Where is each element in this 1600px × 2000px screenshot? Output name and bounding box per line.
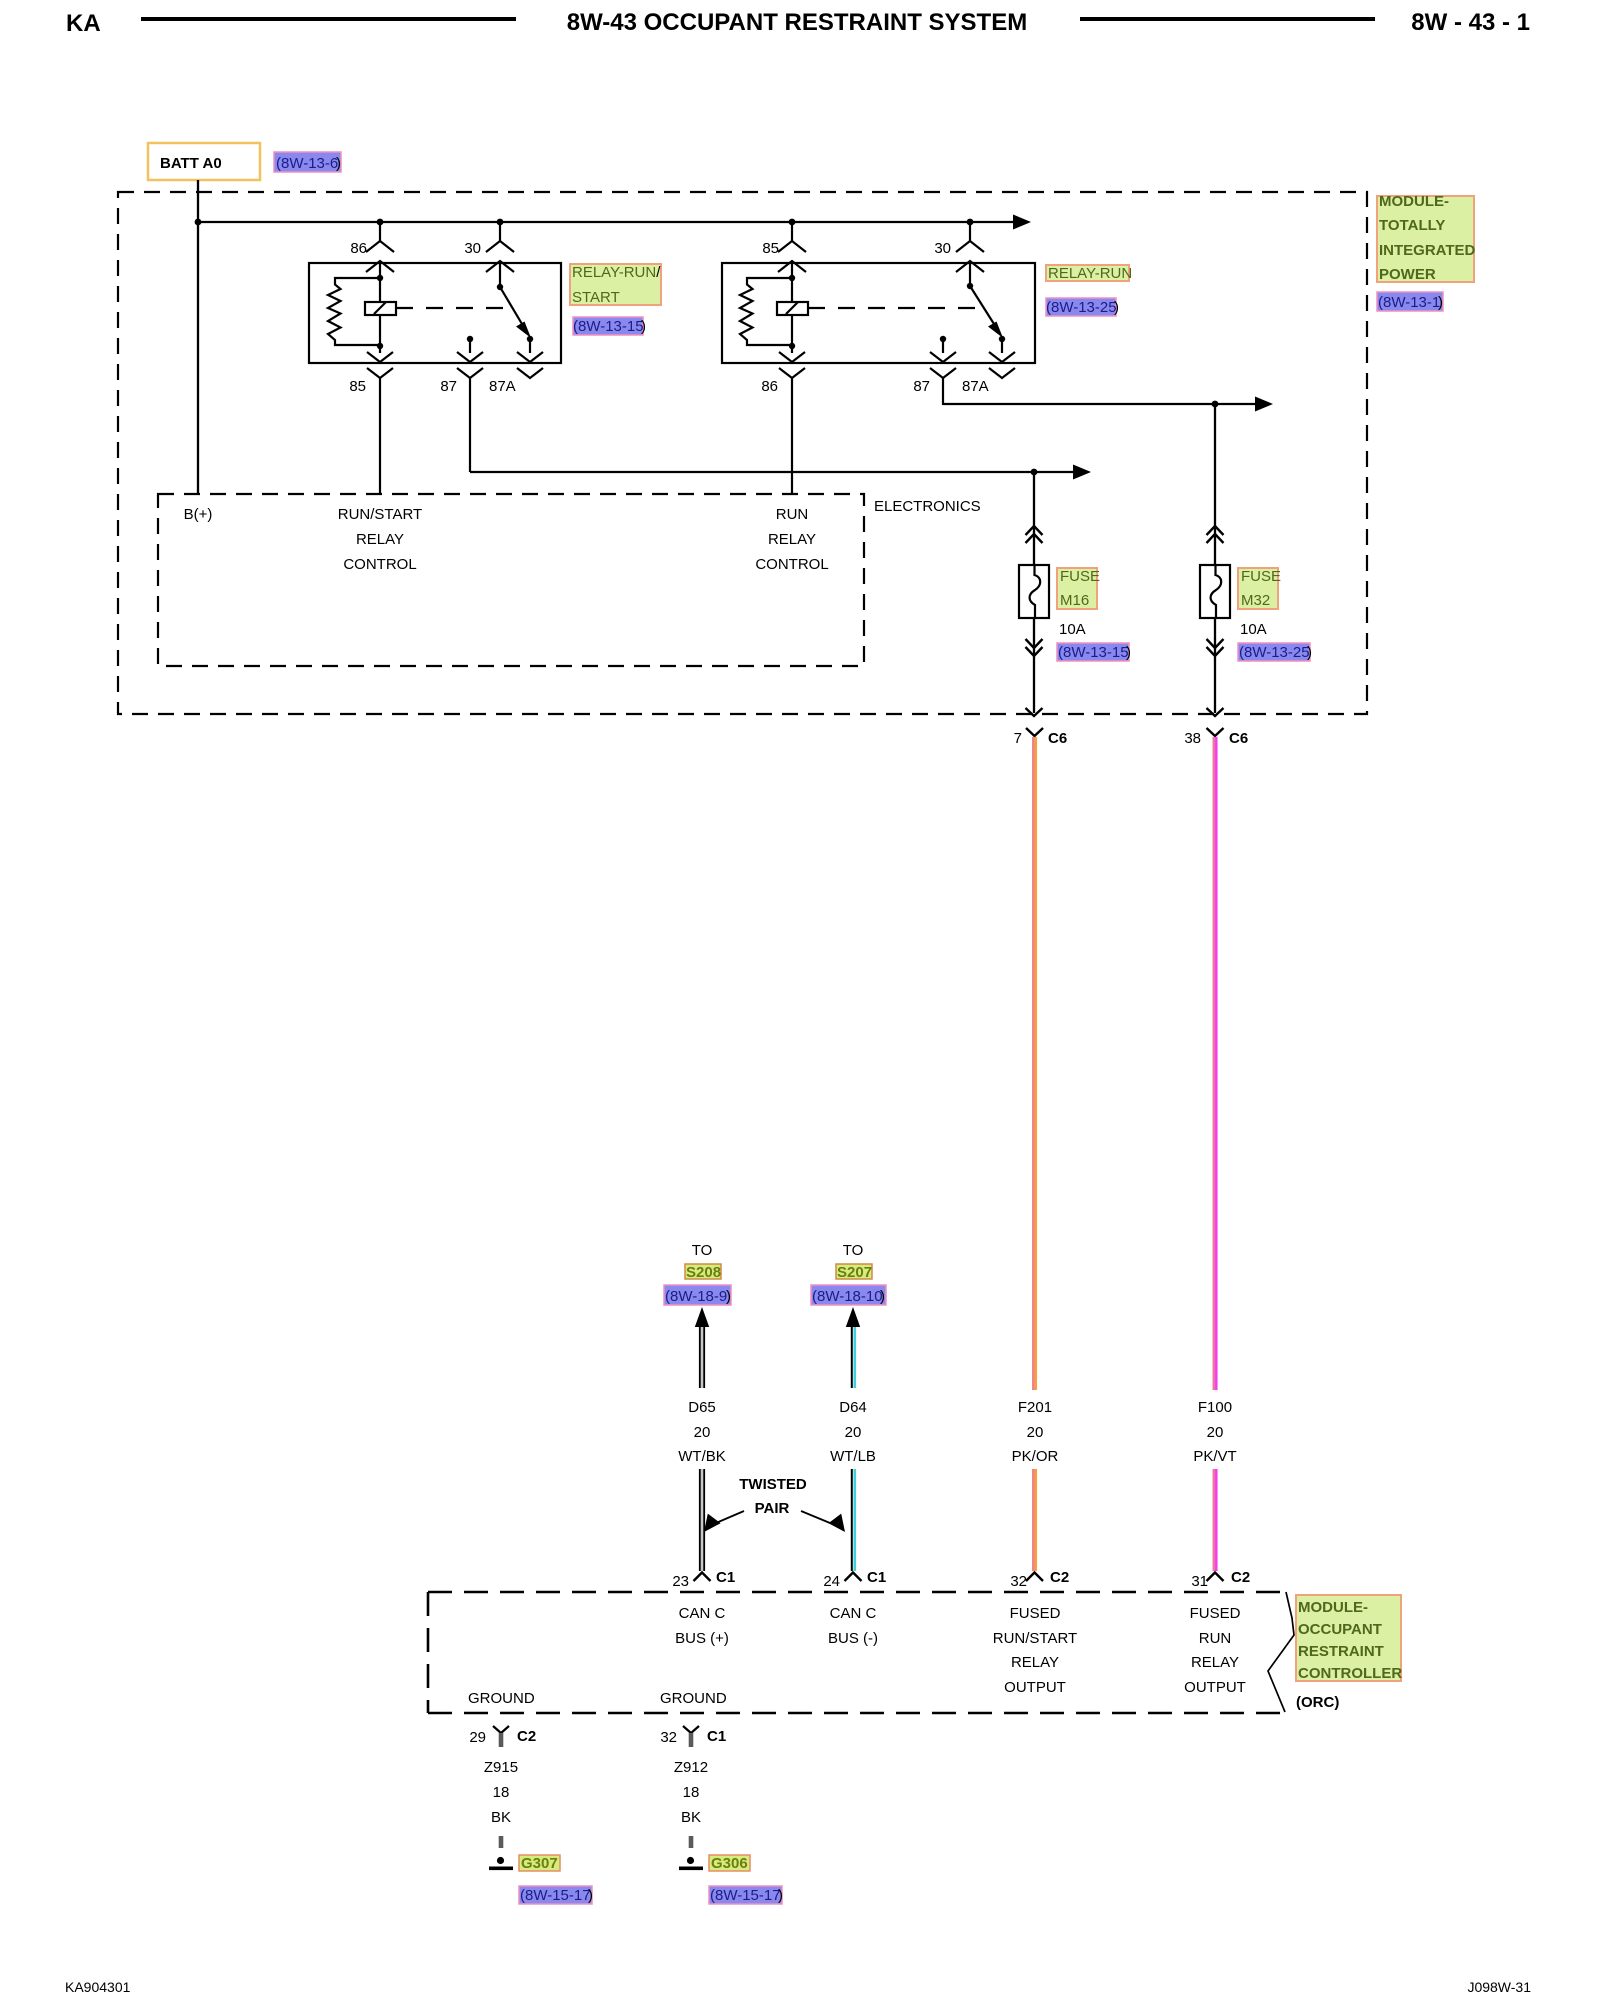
- svg-text:(8W-13-6: (8W-13-6: [276, 155, 338, 172]
- pin 30 terminal relay1: [486, 222, 514, 287]
- relay1 pin87 Y connector: [457, 368, 483, 472]
- pin 87 terminal relay2 bottom: [930, 339, 956, 362]
- node relay1 coil top: [377, 275, 383, 281]
- svg-text:(8W-13-25: (8W-13-25: [1239, 644, 1310, 661]
- module label MODULE-TOTALLY INTEGRATED POWER: [1377, 193, 1476, 283]
- svg-text:GROUND: GROUND: [468, 1690, 535, 1707]
- reference label (8W-13-25) relay2: [1046, 298, 1119, 316]
- arrowhead relay1 switch: [516, 322, 531, 339]
- arrow bus continuation: [1013, 215, 1031, 230]
- svg-text:31: 31: [1191, 1573, 1208, 1590]
- svg-text:TWISTED: TWISTED: [739, 1476, 807, 1493]
- label F100 20 PK/VT: [1193, 1399, 1236, 1465]
- relay1 coil symbol: [365, 302, 396, 315]
- svg-text:C1: C1: [716, 1569, 735, 1586]
- svg-text:(ORC): (ORC): [1296, 1694, 1339, 1711]
- svg-text:24: 24: [823, 1573, 840, 1590]
- relay1 coil wire vertical: [379, 279, 381, 353]
- svg-text:18: 18: [683, 1784, 700, 1801]
- wire BK stub left: [499, 1836, 504, 1848]
- svg-text:87A: 87A: [489, 378, 516, 395]
- svg-text:8W - 43 - 1: 8W - 43 - 1: [1411, 9, 1530, 36]
- fuse M16: [1019, 565, 1049, 619]
- connector C6 pin 38: [1184, 728, 1248, 747]
- svg-text:10A: 10A: [1059, 621, 1086, 638]
- svg-text:): ): [588, 1887, 593, 1904]
- wire F201 PK/OR upper: [1033, 737, 1036, 1390]
- svg-text:F201: F201: [1018, 1399, 1052, 1416]
- node relay1 switch pivot: [497, 284, 503, 290]
- node relay1 pin87 stub: [467, 336, 473, 342]
- svg-text:START: START: [572, 289, 620, 306]
- label FUSE M32: [1238, 568, 1281, 609]
- svg-text:10A: 10A: [1240, 621, 1267, 638]
- svg-text:): ): [1114, 299, 1119, 316]
- label RELAY-RUN/START: [570, 264, 661, 306]
- connector C1 pin 23: [672, 1569, 735, 1590]
- svg-text:87: 87: [913, 378, 930, 395]
- header rule right: [1080, 17, 1375, 21]
- reference label (8W-13-15) relay1: [573, 317, 646, 335]
- wire D64 WT/LB upper: [852, 1327, 855, 1388]
- svg-text:(8W-13-15: (8W-13-15: [573, 318, 644, 335]
- electronics sub-module dashed box: [158, 494, 864, 666]
- connector C2 pin 29: [469, 1726, 536, 1747]
- svg-text:): ): [1126, 644, 1131, 661]
- module box TIPM dashed outline: [118, 192, 1367, 714]
- svg-text:RUN: RUN: [776, 506, 809, 523]
- svg-text:(8W-13-25: (8W-13-25: [1046, 299, 1117, 316]
- pin 87 terminal relay1 bottom: [457, 339, 483, 362]
- node relay2 coil bottom: [789, 343, 795, 349]
- svg-text:20: 20: [845, 1424, 862, 1441]
- node relay2 switch pivot: [967, 283, 973, 289]
- arrow TIPM exit right: [1207, 708, 1224, 716]
- wire fuse M16 vertical: [1033, 472, 1035, 565]
- svg-text:30: 30: [464, 240, 481, 257]
- svg-text:32: 32: [1010, 1573, 1027, 1590]
- svg-text:C2: C2: [1231, 1569, 1250, 1586]
- svg-text:RUN/START: RUN/START: [993, 1630, 1077, 1647]
- svg-text:): ): [641, 318, 646, 335]
- relay2 switch common from pin30: [970, 286, 994, 324]
- svg-text:GROUND: GROUND: [660, 1690, 727, 1707]
- svg-text:FUSED: FUSED: [1010, 1605, 1061, 1622]
- arrowhead relay2 switch: [988, 322, 1003, 339]
- wire BK stub right: [689, 1836, 694, 1848]
- svg-text:BK: BK: [681, 1809, 701, 1826]
- arrow TIPM exit left: [1026, 708, 1043, 716]
- svg-text:): ): [726, 1288, 731, 1305]
- svg-text:M16: M16: [1060, 592, 1089, 609]
- wire F100 PK/VT upper: [1214, 737, 1217, 1390]
- label D65 20 WT/BK: [678, 1399, 726, 1465]
- svg-text:MODULE-: MODULE-: [1379, 193, 1449, 210]
- connector C2 pin 32: [1010, 1569, 1069, 1590]
- svg-text:G307: G307: [521, 1855, 558, 1872]
- wire battery feed vertical: [197, 180, 199, 494]
- node fuse M32 tap: [1212, 401, 1219, 408]
- svg-text:(8W-13-1: (8W-13-1: [1378, 294, 1440, 311]
- svg-text:(8W-13-15: (8W-13-15: [1058, 644, 1129, 661]
- svg-text:CONTROLLER: CONTROLLER: [1298, 1665, 1402, 1682]
- node label RUN RELAY CONTROL: [755, 506, 828, 573]
- relay2 pin87A unused terminal: [989, 368, 1015, 378]
- svg-text:RELAY: RELAY: [1011, 1654, 1059, 1671]
- svg-text:(8W-15-17: (8W-15-17: [520, 1887, 591, 1904]
- pin 85 terminal relay1 bottom: [367, 352, 393, 362]
- svg-text:20: 20: [694, 1424, 711, 1441]
- svg-text:FUSE: FUSE: [1241, 568, 1281, 585]
- pin 86 terminal relay2 bottom: [779, 352, 805, 362]
- svg-text:M32: M32: [1241, 592, 1270, 609]
- svg-text:C2: C2: [517, 1728, 536, 1745]
- node bus junction relay2 pin85: [789, 219, 796, 226]
- wire fuse M32 vertical: [1214, 404, 1216, 565]
- wire top bus horizontal: [198, 221, 1014, 223]
- pin 30 terminal relay2: [956, 222, 984, 286]
- svg-text:OCCUPANT: OCCUPANT: [1298, 1621, 1382, 1638]
- svg-text:CONTROL: CONTROL: [755, 556, 828, 573]
- svg-text:CAN C: CAN C: [830, 1605, 877, 1622]
- svg-text:RELAY: RELAY: [356, 531, 404, 548]
- svg-text:KA904301: KA904301: [65, 1979, 131, 1995]
- svg-text:TOTALLY: TOTALLY: [1379, 217, 1445, 234]
- node bus junction relay1 pin30: [497, 219, 504, 226]
- label Z915 18 BK: [484, 1759, 518, 1826]
- connector chevrons below fuse M16: [1026, 639, 1043, 656]
- relay1 pin87A unused terminal: [517, 368, 543, 378]
- svg-text:RELAY: RELAY: [768, 531, 816, 548]
- node relay1 coil bottom: [377, 343, 383, 349]
- arrow to S208: [695, 1307, 709, 1327]
- connector C1 pin 24: [823, 1569, 886, 1590]
- pin 87A terminal relay2 bottom: [989, 352, 1015, 362]
- label G307: [519, 1855, 560, 1872]
- pin 86 terminal relay1: [366, 222, 394, 279]
- svg-text:FUSED: FUSED: [1190, 1605, 1241, 1622]
- svg-text:POWER: POWER: [1379, 266, 1436, 283]
- svg-text:30: 30: [934, 240, 951, 257]
- svg-text:7: 7: [1014, 730, 1022, 747]
- svg-text:85: 85: [762, 240, 779, 257]
- svg-text:G306: G306: [711, 1855, 748, 1872]
- relay2 switch contact to 87A: [1001, 339, 1003, 353]
- node fuse M16 tap: [1031, 469, 1038, 476]
- connector chevrons above fuse M16: [1026, 526, 1043, 543]
- wire D65 WT/BK lower: [700, 1469, 704, 1571]
- module box ORC jagged break edge: [1268, 1592, 1294, 1712]
- wire relay2 87 to fuse M32: [943, 403, 1256, 405]
- twisted pair callout left: [704, 1511, 744, 1532]
- svg-text:RELAY: RELAY: [1191, 1654, 1239, 1671]
- node relay1 pin87A contact: [527, 336, 533, 342]
- svg-text:WT/LB: WT/LB: [830, 1448, 876, 1465]
- svg-text:PK/VT: PK/VT: [1193, 1448, 1236, 1465]
- label TWISTED PAIR: [739, 1476, 807, 1517]
- svg-text:C6: C6: [1048, 730, 1067, 747]
- svg-text:BK: BK: [491, 1809, 511, 1826]
- connector C1 pin 32: [660, 1726, 726, 1747]
- node bus junction at battery: [195, 219, 202, 226]
- label TO S207 (8W-18-10): [811, 1242, 886, 1305]
- reference label (8W-13-25) fuse M32: [1238, 643, 1312, 661]
- reference label (8W-13-15) fuse M16: [1057, 643, 1131, 661]
- arrow run feed continuation: [1255, 397, 1273, 412]
- label D64 20 WT/LB: [830, 1399, 876, 1465]
- relay2 coil wire vertical: [791, 279, 793, 353]
- svg-text:): ): [1438, 294, 1443, 311]
- arrow to S207: [846, 1307, 860, 1327]
- reference label (8W-13-6): [274, 152, 341, 172]
- svg-text:PK/OR: PK/OR: [1012, 1448, 1059, 1465]
- svg-text:D64: D64: [839, 1399, 867, 1416]
- pin label CAN C BUS (-): [828, 1605, 878, 1647]
- fuse M32: [1200, 565, 1230, 619]
- relay1 coil-to-switch dashed link: [396, 307, 514, 309]
- label RELAY-RUN: [1046, 265, 1132, 282]
- header rule left: [141, 17, 516, 21]
- connector C2 pin 31: [1191, 1569, 1250, 1590]
- svg-text:C1: C1: [867, 1569, 886, 1586]
- svg-text:85: 85: [349, 378, 366, 395]
- svg-text:18: 18: [493, 1784, 510, 1801]
- label F201 20 PK/OR: [1012, 1399, 1059, 1465]
- svg-text:Z912: Z912: [674, 1759, 708, 1776]
- svg-text:Z915: Z915: [484, 1759, 518, 1776]
- svg-text:23: 23: [672, 1573, 689, 1590]
- svg-text:32: 32: [660, 1729, 677, 1746]
- resistor relay2 coil suppression: [740, 278, 792, 345]
- resistor relay1 coil suppression: [328, 278, 380, 345]
- connector chevrons below fuse M32: [1207, 639, 1224, 656]
- svg-text:KA: KA: [66, 10, 101, 37]
- svg-text:RESTRAINT: RESTRAINT: [1298, 1643, 1384, 1660]
- svg-text:(8W-15-17: (8W-15-17: [710, 1887, 781, 1904]
- relay K2 box: [722, 263, 1035, 363]
- twisted pair callout right: [801, 1511, 845, 1532]
- svg-text:RELAY-RUN: RELAY-RUN: [1048, 265, 1132, 282]
- pin label FUSED RUN RELAY OUTPUT: [1184, 1605, 1246, 1696]
- label G306: [709, 1855, 750, 1872]
- svg-text:CAN C: CAN C: [679, 1605, 726, 1622]
- relay1 pin85 Y connector: [367, 368, 393, 494]
- svg-text:86: 86: [761, 378, 778, 395]
- relay2 pin86 Y connector: [779, 368, 805, 494]
- ground G307 symbol: [489, 1857, 513, 1870]
- svg-text:S208: S208: [686, 1264, 721, 1281]
- svg-text:C2: C2: [1050, 1569, 1069, 1586]
- svg-text:PAIR: PAIR: [755, 1500, 790, 1517]
- wire D64 WT/LB lower: [852, 1469, 855, 1571]
- svg-text:MODULE-: MODULE-: [1298, 1599, 1368, 1616]
- svg-text:D65: D65: [688, 1399, 716, 1416]
- svg-text:RUN/START: RUN/START: [338, 506, 422, 523]
- svg-text:C6: C6: [1229, 730, 1248, 747]
- node relay2 pin87A contact: [999, 336, 1005, 342]
- svg-text:C1: C1: [707, 1728, 726, 1745]
- svg-text:8W-43 OCCUPANT RESTRAINT SYSTE: 8W-43 OCCUPANT RESTRAINT SYSTEM: [567, 9, 1027, 36]
- relay1 switch contact to 87A: [529, 339, 531, 353]
- svg-text:TO: TO: [692, 1242, 713, 1259]
- svg-text:RELAY-RUN/: RELAY-RUN/: [572, 264, 661, 281]
- connector C6 pin 7: [1014, 728, 1068, 747]
- svg-text:RUN: RUN: [1199, 1630, 1232, 1647]
- pin label FUSED RUN/START RELAY OUTPUT: [993, 1605, 1077, 1696]
- pin label CAN C BUS (+): [675, 1605, 729, 1647]
- svg-text:S207: S207: [837, 1264, 872, 1281]
- svg-text:20: 20: [1207, 1424, 1224, 1441]
- svg-text:): ): [1307, 644, 1312, 661]
- label Z912 18 BK: [674, 1759, 708, 1826]
- svg-text:OUTPUT: OUTPUT: [1004, 1679, 1066, 1696]
- svg-text:ELECTRONICS: ELECTRONICS: [874, 498, 981, 515]
- svg-text:F100: F100: [1198, 1399, 1232, 1416]
- reference label (8W-13-1): [1377, 292, 1443, 311]
- svg-text:38: 38: [1184, 730, 1201, 747]
- svg-text:BUS (-): BUS (-): [828, 1630, 878, 1647]
- relay1 switch common from pin30: [500, 287, 522, 324]
- node bus junction relay1 pin86: [377, 219, 384, 226]
- svg-text:OUTPUT: OUTPUT: [1184, 1679, 1246, 1696]
- svg-text:86: 86: [350, 240, 367, 257]
- label TO S208 (8W-18-9): [664, 1242, 731, 1305]
- relay K1 box: [309, 263, 561, 363]
- pin 87A terminal relay1 bottom: [517, 352, 543, 362]
- relay2 coil-to-switch dashed link: [808, 307, 984, 309]
- svg-text:(8W-18-10: (8W-18-10: [812, 1288, 883, 1305]
- relay2 pin87 Y connector: [930, 368, 956, 405]
- wire relay1 87 to fuse M16: [470, 471, 1074, 473]
- arrow electronics feed continuation: [1073, 465, 1091, 480]
- label FUSE M16: [1057, 568, 1100, 609]
- wire F100 PK/VT lower: [1214, 1469, 1217, 1571]
- svg-text:INTEGRATED: INTEGRATED: [1379, 242, 1476, 259]
- svg-text:87: 87: [440, 378, 457, 395]
- connector chevrons above fuse M32: [1207, 526, 1224, 543]
- relay2 coil symbol: [777, 302, 808, 315]
- node relay2 pin87 stub: [940, 336, 946, 342]
- node bus junction relay2 pin30: [967, 219, 974, 226]
- reference label (8W-15-17) left: [519, 1886, 593, 1904]
- svg-text:): ): [778, 1887, 783, 1904]
- wire D65 WT/BK upper: [700, 1327, 704, 1388]
- svg-text:CONTROL: CONTROL: [343, 556, 416, 573]
- svg-text:B(+): B(+): [184, 506, 213, 523]
- svg-text:): ): [880, 1288, 885, 1305]
- svg-text:): ): [336, 155, 341, 172]
- ground G306 symbol: [679, 1857, 703, 1870]
- wire F201 PK/OR lower: [1033, 1469, 1036, 1571]
- reference label (8W-15-17) right: [709, 1886, 783, 1904]
- svg-text:BUS (+): BUS (+): [675, 1630, 729, 1647]
- svg-text:(8W-18-9: (8W-18-9: [665, 1288, 727, 1305]
- svg-text:WT/BK: WT/BK: [678, 1448, 726, 1465]
- node relay2 coil top: [789, 275, 795, 281]
- node label RUN/START RELAY CONTROL: [338, 506, 422, 573]
- module box ORC dashed outline: [428, 1592, 1294, 1713]
- svg-text:29: 29: [469, 1729, 486, 1746]
- svg-text:TO: TO: [843, 1242, 864, 1259]
- module label MODULE-OCCUPANT RESTRAINT CONTROLLER: [1296, 1595, 1402, 1682]
- svg-text:FUSE: FUSE: [1060, 568, 1100, 585]
- svg-text:J098W-31: J098W-31: [1467, 1979, 1531, 1995]
- svg-text:BATT A0: BATT A0: [160, 155, 222, 172]
- pin 85 terminal relay2: [778, 222, 806, 279]
- svg-text:87A: 87A: [962, 378, 989, 395]
- battery feed box BATT A0: [148, 143, 260, 180]
- svg-text:20: 20: [1027, 1424, 1044, 1441]
